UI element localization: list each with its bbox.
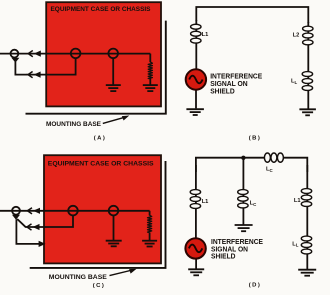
connector J1 shell wire (A)	[15, 62, 27, 75]
callout arrow to mounting base (C)	[110, 270, 132, 275]
feedthrough capacitor C2 (A)	[108, 49, 118, 59]
wire: zigzag to ground (C)	[149, 233, 151, 241]
ground right branch (D)	[298, 269, 316, 271]
junction node on top wire (D)	[241, 156, 245, 160]
ground at chassis corner (A)	[143, 84, 158, 86]
svg-text:L1: L1	[202, 32, 209, 38]
wire: top loop wire (D)	[196, 158, 307, 172]
svg-text:L1: L1	[202, 199, 209, 205]
wire: top loop wire (B)	[196, 7, 308, 23]
mounting base line (A)	[26, 21, 166, 114]
wire: C4 to ground (C)	[113, 215, 115, 240]
svg-text:L1: L1	[294, 198, 301, 204]
equipment case or chassis box (C)	[44, 155, 161, 263]
interference-current arrows on W1 (C)	[27, 208, 32, 214]
svg-text:(C): (C)	[93, 283, 105, 289]
connector J2 shell triangle (C)	[12, 215, 20, 220]
inductor L1 right (D)	[301, 189, 311, 194]
ground right branch (B)	[299, 108, 316, 110]
wire: shield lead W2 (C)	[25, 215, 73, 227]
interference signal source V2 (D)	[185, 238, 205, 258]
wire: source to ground (B)	[195, 89, 197, 108]
feedthrough capacitor C3 (C)	[68, 206, 78, 216]
interference-current arrows on W2 (A)	[28, 72, 33, 78]
wire: shield lead W2 (A)	[27, 58, 76, 75]
wire: middle bond branch (D)	[242, 158, 244, 225]
ground under C2 (A)	[106, 84, 121, 86]
wire: left branch (B)	[195, 20, 197, 71]
svg-text:SIGNAL ON: SIGNAL ON	[211, 246, 248, 253]
mounting base line (C)	[30, 161, 166, 268]
svg-text:SIGNAL ON: SIGNAL ON	[210, 81, 248, 88]
ground under source (D)	[188, 268, 204, 270]
wire: W1 down to bond strap (A)	[149, 54, 151, 63]
wire: source to ground (D)	[195, 258, 197, 269]
wire: left branch (D)	[195, 165, 197, 239]
feedthrough capacitor C1 (A)	[71, 49, 81, 59]
connector J2 circle (C)	[12, 207, 20, 215]
bond-strap inductance zigzag (C)	[148, 215, 152, 232]
wire: right branch (D)	[306, 165, 308, 269]
connector J1 shell triangle (A)	[11, 58, 19, 63]
svg-text:SHIELD: SHIELD	[210, 88, 235, 95]
diagonal wire connector to shield lead (C)	[17, 219, 26, 227]
svg-text:(B): (B)	[249, 135, 261, 141]
inductor L1 (B)	[191, 24, 201, 29]
interference-current arrows on W2 (C)	[27, 224, 32, 230]
inductor LL load (D)	[301, 236, 311, 241]
ground under source (B)	[186, 108, 204, 110]
inductor LC middle (D)	[238, 190, 248, 195]
svg-text:LL: LL	[292, 241, 298, 247]
wire: through-lead W1 (A)	[0, 53, 150, 55]
interference signal source V1 (B)	[186, 69, 206, 89]
wire: C2 to ground (A)	[112, 58, 114, 85]
svg-text:LL: LL	[291, 79, 297, 85]
inductor L2 (B)	[303, 26, 313, 31]
svg-text:(A): (A)	[94, 135, 106, 141]
svg-text:MOUNTING BASE: MOUNTING BASE	[46, 121, 102, 128]
svg-text:INTERFERENCE: INTERFERENCE	[211, 239, 263, 246]
svg-text:(D): (D)	[249, 283, 261, 289]
ground at chassis corner (C)	[142, 240, 157, 242]
wire: W1 down to bond strap (C)	[149, 211, 151, 216]
svg-text:L2: L2	[293, 32, 300, 38]
ground middle branch (D)	[235, 224, 253, 226]
svg-text:EQUIPMENT CASE OR CHASSIS: EQUIPMENT CASE OR CHASSIS	[48, 160, 155, 167]
svg-text:EQUIPMENT CASE OR CHASSIS: EQUIPMENT CASE OR CHASSIS	[51, 6, 152, 13]
svg-text:INTERFERENCE: INTERFERENCE	[210, 74, 262, 81]
callout arrow to mounting base (A)	[103, 117, 125, 123]
svg-text:SHIELD: SHIELD	[211, 254, 236, 261]
wire: zigzag to ground (A)	[149, 79, 151, 85]
inductor L1 (D)	[190, 190, 200, 195]
ground under C4 (C)	[106, 240, 122, 242]
feedthrough capacitor C4 (C)	[109, 206, 119, 216]
interference-current arrows on W1 (A)	[28, 51, 33, 57]
bond-strap inductance zigzag (A)	[148, 62, 152, 79]
wire: through-lead W1 (C)	[0, 210, 150, 212]
connector J2 bond wire to case (C)	[16, 219, 40, 244]
wire: right branch (B)	[307, 22, 309, 109]
svg-text:MOUNTING BASE: MOUNTING BASE	[49, 274, 108, 281]
svg-text:LC: LC	[250, 200, 257, 206]
inductor LC in top wire (D)	[264, 153, 270, 162]
bond arrowhead at case wall (C)	[39, 241, 46, 247]
equipment case or chassis box (A)	[46, 2, 161, 106]
svg-text:LC: LC	[266, 167, 273, 173]
inductor LL load (B)	[302, 72, 312, 77]
connector J1 circle (A)	[11, 50, 19, 58]
